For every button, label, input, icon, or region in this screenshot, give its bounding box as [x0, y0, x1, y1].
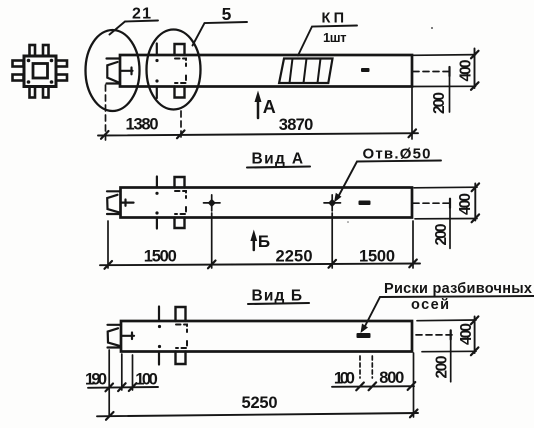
- view B top tab: [176, 307, 186, 321]
- cross-section bottom tabs: [30, 87, 49, 98]
- top view bottom tab: [175, 87, 185, 98]
- view B dashed ext riska left: [359, 356, 361, 378]
- top view beam outline: [120, 55, 412, 87]
- view B ext line beam left: [121, 354, 123, 390]
- view A left tongue: [107, 191, 121, 214]
- top view embed mark (dark dash): [361, 68, 370, 72]
- view B axis mark (riska): [357, 333, 371, 338]
- view A bottom tab: [175, 218, 185, 229]
- KP plate parallelogram: [279, 59, 332, 84]
- view A right ext lines: [414, 187, 477, 219]
- view A 200 text: [433, 224, 450, 246]
- svg-text:5: 5: [222, 4, 232, 24]
- dim text 100 right: [334, 369, 355, 387]
- view B 200 tick: [450, 330, 452, 339]
- dim text 1500 left: [144, 248, 177, 266]
- view B 400 text: [458, 323, 475, 345]
- cross-section right tabs: [56, 61, 67, 81]
- svg-text:Вид Б: Вид Б: [252, 288, 303, 305]
- section arrow A: [255, 91, 276, 119]
- detail ellipse 5: [147, 30, 201, 110]
- view A top tab: [175, 177, 185, 188]
- top view dim extension dashed centerline ellipse21: [105, 85, 107, 140]
- view A mid dashed ext: [413, 202, 450, 204]
- view B left tongue: [108, 325, 122, 348]
- view B dim ticks 100/800: [356, 382, 415, 390]
- dim text 190: [85, 370, 107, 388]
- svg-text:400: 400: [458, 60, 475, 82]
- svg-text:200: 200: [434, 356, 451, 379]
- top view anchor tick marks at x157: [156, 44, 158, 99]
- view A ext hole2: [331, 213, 333, 268]
- top view left tongue: [107, 59, 121, 84]
- view B dim line 100/800: [332, 385, 414, 388]
- label Riski razbivochnyh osey with leader: [361, 281, 534, 333]
- view B 200 dim line: [450, 330, 452, 381]
- svg-text:Б: Б: [258, 232, 270, 251]
- view A 400 dim line: [474, 184, 476, 221]
- view A anchor dots: [155, 192, 158, 215]
- svg-text:А: А: [263, 97, 276, 117]
- view B bottom tab: [176, 352, 186, 365]
- view A 400 text: [457, 193, 474, 215]
- label KP 1sht with leader: [298, 10, 357, 55]
- view A end hook: [122, 200, 134, 206]
- view A hole mark 2: [324, 195, 341, 211]
- detail ellipse 21: [86, 30, 140, 111]
- svg-text:1шт: 1шт: [323, 30, 347, 45]
- view B dim ticks 190/100: [106, 383, 137, 391]
- svg-text:5250: 5250: [242, 394, 278, 412]
- svg-text:1380: 1380: [126, 116, 159, 134]
- dim ticks top view: [101, 129, 416, 138]
- top view 200 dim line: [449, 67, 451, 112]
- column cross-section symbol top-left: outer square: [24, 56, 56, 87]
- view B end hook: [122, 333, 134, 340]
- view B ext line 100: [132, 355, 134, 390]
- svg-text:1500: 1500: [359, 248, 395, 266]
- top view top tab: [175, 44, 185, 55]
- top view dim extension dashed centerline ellipse5: [180, 111, 182, 140]
- view B 400 dim line: [474, 317, 476, 354]
- svg-text:400: 400: [458, 323, 475, 345]
- cross-section corner bolts: [27, 59, 54, 84]
- view A hidden bracket dashed: [175, 191, 186, 214]
- svg-text:200: 200: [433, 224, 450, 246]
- svg-text:осей: осей: [411, 297, 449, 313]
- dim text 3870: [279, 116, 314, 134]
- view B dashed ext riska right: [371, 356, 373, 378]
- section arrow B: [250, 230, 270, 252]
- view B 400 ticks: [471, 316, 479, 355]
- svg-text:КП: КП: [322, 10, 345, 26]
- view A 200 dim line: [449, 199, 451, 249]
- svg-text:Вид А: Вид А: [252, 151, 304, 168]
- svg-text:3870: 3870: [279, 116, 314, 134]
- top view 200 tick: [448, 67, 450, 76]
- view B right ext lines: [417, 320, 476, 352]
- cross-section top tabs: [30, 45, 49, 56]
- dim text 1380: [126, 116, 159, 134]
- top view 200 text: [431, 92, 448, 114]
- label 21 with leader: [110, 6, 159, 35]
- dim text 1500 right: [359, 248, 395, 266]
- top view hidden bracket dashed: [175, 59, 186, 84]
- dim text 100 left: [135, 370, 158, 388]
- view B ext right long: [413, 353, 415, 417]
- view B 5250 ticks: [106, 410, 418, 420]
- view A beam outline: [121, 188, 413, 218]
- top view dimension line 1380/3870: [98, 133, 418, 135]
- svg-text:1500: 1500: [144, 248, 177, 266]
- KP plate dividers: [290, 59, 321, 84]
- svg-text:800: 800: [379, 369, 404, 387]
- view B beam outline: [121, 321, 412, 352]
- top view dim extension right: [411, 88, 413, 139]
- title Vid B underlined: [248, 288, 309, 305]
- top view anchor dots: [155, 59, 158, 83]
- svg-text:Риски разбивочных: Риски разбивочных: [384, 281, 532, 297]
- top view end hook: [121, 68, 133, 75]
- view A hole mark 1: [204, 195, 221, 211]
- view B anchor dots: [158, 325, 161, 348]
- svg-text:100: 100: [135, 370, 158, 388]
- view B dim line 190/100: [88, 386, 158, 389]
- top view 400 text: [458, 60, 475, 82]
- view A anchor ticks: [156, 177, 158, 229]
- view A embed mark dash: [359, 201, 371, 206]
- label Otv f50 with leader and arrow: [334, 146, 441, 203]
- paper speck 2: [347, 221, 349, 223]
- view B hidden bracket dashed: [176, 325, 187, 349]
- dim text 5250: [242, 394, 278, 412]
- cross-section left tabs: [13, 61, 24, 81]
- top view 400 dim line: [474, 49, 476, 89]
- svg-text:190: 190: [85, 370, 107, 388]
- view B 200 text: [434, 356, 451, 379]
- paper speck: [431, 27, 433, 29]
- view B ext line tongue tip long: [108, 350, 110, 416]
- svg-text:400: 400: [457, 193, 474, 215]
- dim text 2250: [276, 248, 313, 266]
- view A 200 tick: [449, 199, 451, 208]
- top view 400 ticks: [471, 51, 479, 90]
- cross-section inner square: [33, 64, 48, 79]
- view B mid dashed ext: [416, 334, 452, 336]
- view A dimension line: [100, 264, 420, 266]
- dim text 800: [379, 369, 404, 387]
- title Vid A underlined: [247, 151, 310, 168]
- view A ext line left: [107, 221, 109, 268]
- view A 400 ticks: [472, 183, 480, 222]
- view A ext right: [412, 221, 414, 268]
- view A ext hole1: [211, 213, 213, 268]
- label 5 with leader: [193, 4, 248, 46]
- view B 5250 dim line: [97, 413, 418, 416]
- view B anchor ticks: [158, 307, 160, 365]
- svg-text:200: 200: [431, 92, 448, 114]
- svg-text:2250: 2250: [276, 248, 313, 266]
- top view mid dashed ext 200: [413, 71, 450, 73]
- svg-text:100: 100: [334, 369, 355, 387]
- top view right ext lines 400: [413, 55, 476, 87]
- view A dim ticks: [105, 260, 417, 269]
